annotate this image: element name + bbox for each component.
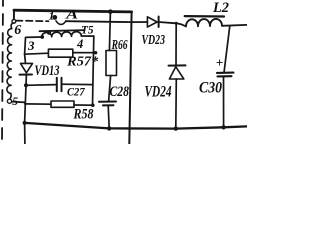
svg-text:С27: С27	[67, 85, 85, 99]
svg-text:5: 5	[12, 96, 18, 108]
svg-text:С30: С30	[199, 80, 222, 97]
svg-text:А: А	[65, 7, 78, 21]
svg-text:R58: R58	[73, 107, 94, 123]
svg-text:R57*: R57*	[66, 53, 98, 68]
svg-text:L2: L2	[212, 0, 229, 16]
svg-text:Т5: Т5	[81, 23, 94, 37]
svg-text:С28: С28	[110, 84, 130, 100]
svg-text:VD13: VD13	[35, 63, 60, 79]
svg-text:6: 6	[14, 23, 21, 38]
svg-text:VD24: VD24	[145, 84, 172, 101]
svg-text:1: 1	[49, 9, 55, 23]
svg-text:3: 3	[27, 38, 35, 53]
svg-text:+: +	[216, 55, 223, 70]
svg-text:VD23: VD23	[142, 32, 166, 47]
svg-text:4: 4	[76, 37, 83, 51]
svg-text:R66: R66	[111, 38, 128, 53]
